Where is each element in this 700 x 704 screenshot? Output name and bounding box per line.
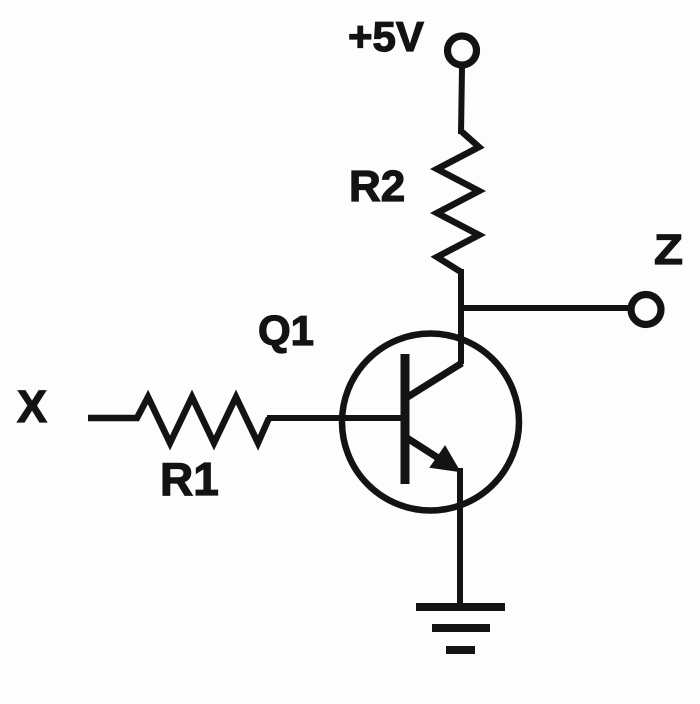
svg-text:Z: Z: [654, 226, 683, 274]
wire R2 to collector (node at Z branch): [458, 269, 464, 364]
ground bar 3: [446, 646, 475, 654]
ground bar 2: [432, 624, 490, 632]
svg-text:R2: R2: [349, 162, 405, 211]
svg-text:+5V: +5V: [348, 13, 424, 60]
wire emitter to ground: [457, 468, 463, 607]
transistor Q1 emitter stroke: [407, 438, 446, 463]
wire R1 to base: [267, 415, 402, 421]
terminal +5V: [448, 36, 477, 65]
svg-text:R1: R1: [160, 453, 219, 505]
wire from +5V terminal to R2: [461, 68, 462, 135]
svg-text:X: X: [17, 381, 47, 432]
transistor Q1 body circle: [342, 334, 519, 511]
transistor Q1 collector stroke: [406, 363, 462, 398]
resistor R2: [437, 131, 479, 272]
transistor Q1 base bar: [401, 354, 410, 484]
ground bar 1: [416, 603, 505, 611]
svg-text:Q1: Q1: [258, 307, 314, 354]
transistor Q1 emitter arrowhead: [431, 447, 459, 471]
terminal Z: [631, 295, 661, 325]
resistor R1 with input lead: [88, 397, 269, 443]
wire node to Z terminal: [458, 305, 632, 311]
